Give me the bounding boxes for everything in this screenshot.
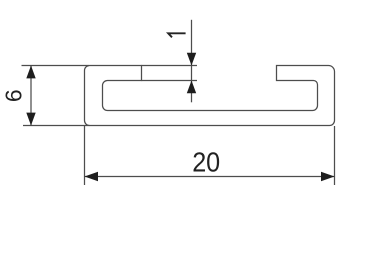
dimension 6 : extension lines	[22, 65, 90, 67]
dimension 20 : dimension line	[85, 176, 335, 178]
dimension 1 : label (rotated digit 1 drawn as path)	[168, 33, 185, 37]
dimension 1 : extension lines	[142, 65, 198, 67]
svg-text:6: 6	[1, 89, 27, 102]
dimension 6 : arrows	[26, 66, 35, 79]
dimension 20 : arrows	[85, 172, 99, 181]
dimension 1 : arrows	[187, 53, 196, 66]
svg-text:20: 20	[192, 146, 220, 177]
dimension 6 : dimension line	[30, 66, 32, 126]
dimension 20 : extension lines	[84, 126, 86, 185]
dimension 1 : dimension line	[191, 20, 193, 103]
profile outline (C-channel cross-section, slot in top)	[85, 66, 335, 126]
